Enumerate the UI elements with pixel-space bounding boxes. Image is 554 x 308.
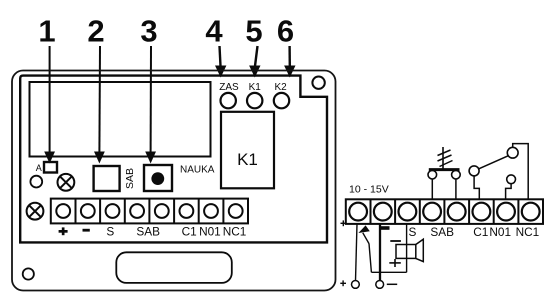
arrow 3 (to NAUKA button) [145, 46, 156, 164]
siren S wire [406, 224, 408, 272]
tamper switch contact circles [428, 170, 437, 179]
SAB button square (target of arrow 2) [94, 166, 120, 191]
svg-text:SAB: SAB [430, 225, 454, 239]
minus bar under terminal 2 [379, 226, 390, 230]
svg-text:2: 2 [87, 14, 104, 49]
svg-text:A: A [36, 163, 42, 173]
bottom horizontal wire [371, 271, 406, 273]
tamper switch wire left [431, 179, 433, 199]
svg-text:NAUKA: NAUKA [180, 165, 215, 176]
svg-text:NC1: NC1 [223, 224, 247, 238]
jumper square (target of arrow 1) [44, 162, 57, 173]
svg-text:C1: C1 [182, 224, 197, 238]
PCB outline with notched top-right corner [20, 76, 327, 243]
relay NO wire to N01 terminal [506, 184, 512, 200]
speaker plus label [389, 259, 401, 267]
svg-text:1: 1 [38, 14, 55, 49]
NAUKA button dot [151, 172, 164, 185]
battery + circle [352, 281, 360, 289]
tamper switch bar [429, 168, 460, 171]
arrow 6 (to K2 LED) [284, 46, 295, 78]
component block (large rectangle) [30, 82, 211, 157]
switch lower wire [369, 244, 371, 273]
LED K2 [274, 93, 289, 108]
tamper plunger hatching [438, 150, 453, 167]
svg-text:SAB: SAB [136, 224, 160, 238]
plus label at battery [340, 280, 346, 286]
buzzer symbol (circle with X) upper [58, 174, 75, 191]
PCB terminal label + [59, 227, 68, 235]
minus label at battery [387, 283, 397, 285]
arrow 5 (to K1 LED) [249, 46, 260, 78]
switch lever [363, 233, 369, 244]
svg-text:K1: K1 [249, 82, 262, 93]
battery - wire [379, 224, 381, 281]
svg-text:3: 3 [140, 14, 157, 49]
battery - circle [376, 281, 384, 289]
svg-text:N01: N01 [489, 225, 511, 239]
relay NC circle [507, 147, 518, 158]
svg-text:N01: N01 [199, 224, 221, 238]
relay contact C1 wire [474, 176, 479, 199]
svg-text:S: S [106, 224, 114, 238]
relay lever to NC [479, 156, 509, 169]
NAUKA button square (target of arrow 3) [144, 165, 172, 191]
LED K1 [247, 93, 262, 108]
svg-text:SAB: SAB [124, 168, 136, 189]
mounting hole top-right [312, 77, 324, 89]
tamper switch wire right [455, 179, 457, 199]
svg-text:6: 6 [277, 14, 294, 49]
buzzer symbol (circle with X) lower-left [27, 203, 44, 220]
schematic terminal screws [349, 203, 539, 221]
cable slot [116, 252, 232, 283]
svg-text:10 - 15V: 10 - 15V [349, 184, 389, 196]
speaker body [396, 245, 416, 259]
svg-text:4: 4 [205, 14, 223, 49]
terminal screws on PCB [56, 204, 242, 218]
battery + wire [356, 224, 358, 281]
svg-text:C1: C1 [473, 225, 488, 239]
arrow 2 (to SAB button) [94, 46, 105, 164]
schematic terminal block [346, 199, 543, 224]
terminal block on PCB [51, 199, 248, 224]
LED circle (A) [30, 176, 42, 188]
svg-text:K2: K2 [274, 82, 287, 93]
svg-text:5: 5 [245, 14, 262, 49]
relay K1 box [221, 112, 274, 189]
speaker minus label [390, 240, 401, 242]
tamper switch plunger [442, 147, 444, 170]
svg-text:S: S [408, 225, 416, 239]
svg-text:NC1: NC1 [516, 225, 540, 239]
relay contact common circle (C1) [469, 166, 479, 176]
arrow 1 (to LED A jumper) [44, 46, 55, 164]
polarity arrow at + terminal [358, 225, 369, 233]
LED ZAS [221, 93, 236, 108]
PCB terminal label - [83, 229, 90, 232]
svg-text:K1: K1 [237, 150, 258, 169]
speaker cone [416, 239, 424, 261]
enclosure case outline [12, 71, 336, 291]
small plus mark near terminal 1 [341, 220, 347, 226]
relay NO circle [507, 175, 516, 184]
relay NC wire up and to NC1 terminal [513, 144, 529, 200]
arrow 4 (to ZAS LED) [215, 46, 226, 78]
mounting hole bottom-left [23, 268, 34, 279]
svg-text:ZAS: ZAS [219, 82, 239, 93]
